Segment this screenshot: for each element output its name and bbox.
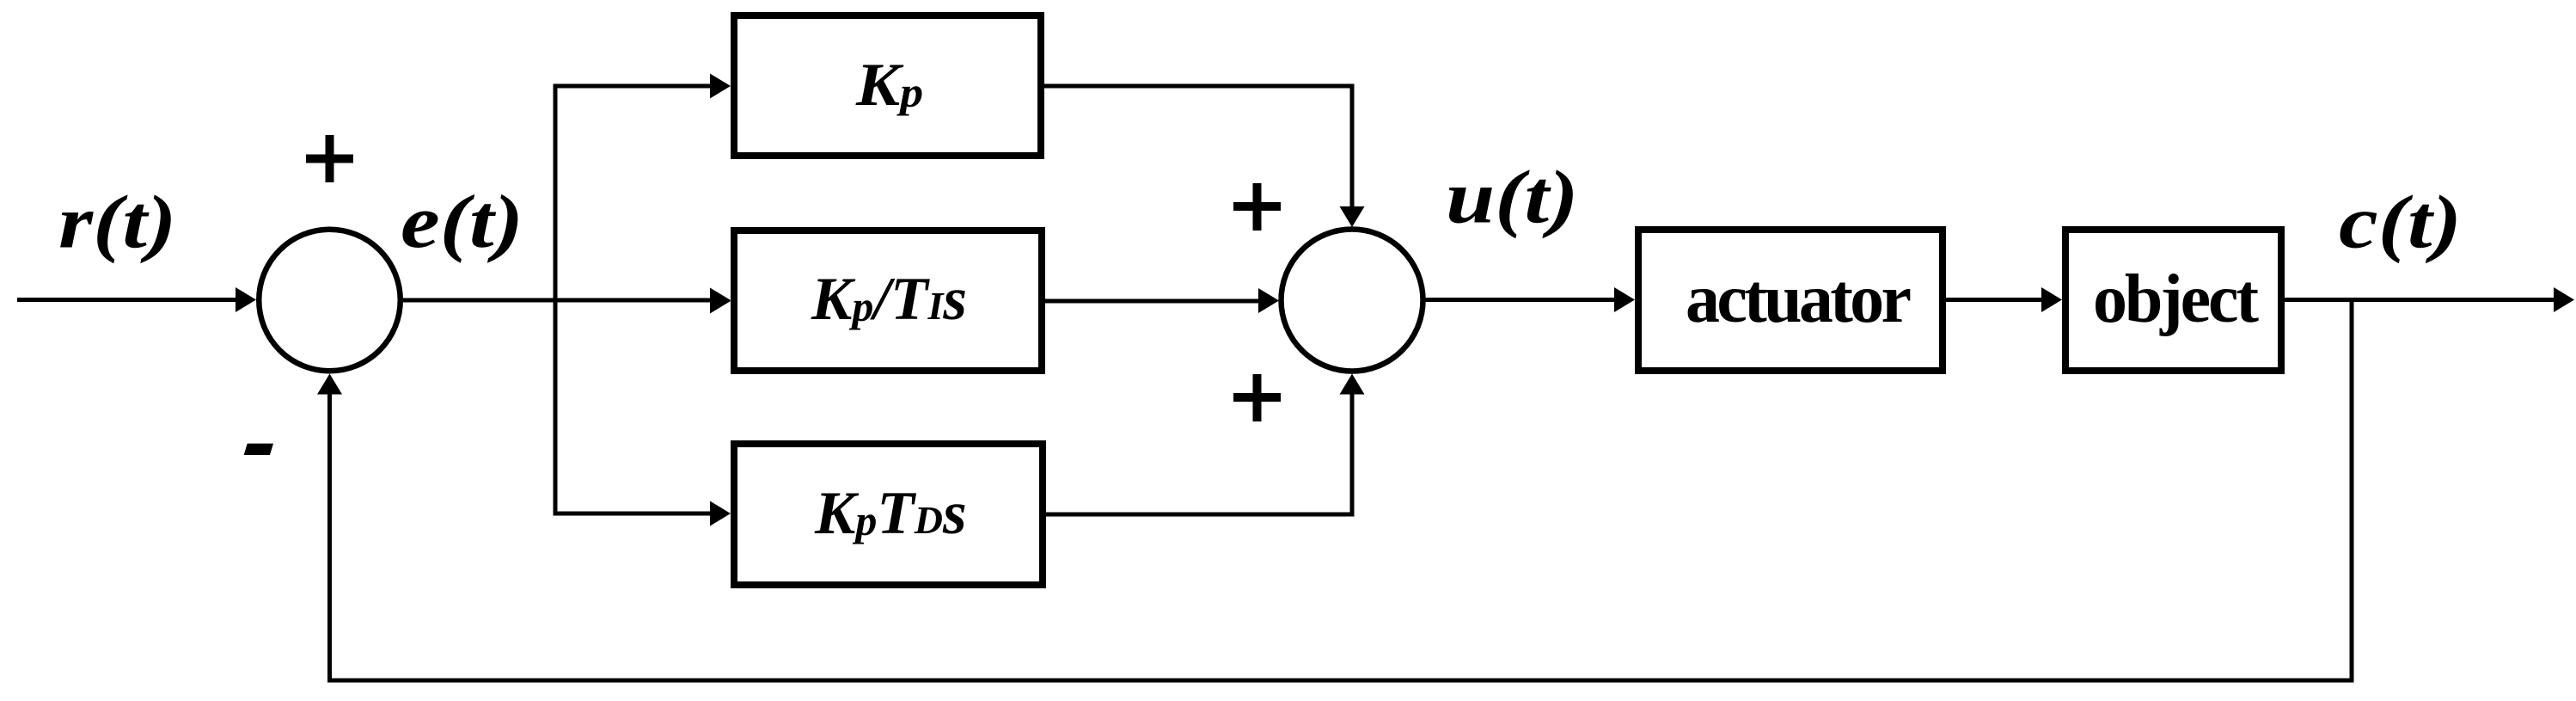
plus sign upper at summing junction S2: [1233, 183, 1281, 231]
wire branch to KpTDs block: [554, 501, 731, 526]
svg-text:object: object: [2093, 261, 2259, 337]
svg-text:actuator: actuator: [1686, 261, 1912, 337]
wire actuator to object: [1946, 287, 2062, 312]
block KpTDs: [734, 444, 1043, 585]
wire output c(t): [2285, 287, 2574, 312]
node label u(t): [1446, 155, 1578, 238]
svg-text:c(t): c(t): [2339, 180, 2462, 263]
wire branch to Kp block: [554, 74, 731, 99]
block actuator: [1638, 230, 1943, 371]
summing junction S2: [1282, 230, 1423, 372]
wire KpTDs output to summing junction S2: [1046, 374, 1365, 517]
node label r(t): [58, 180, 176, 263]
minus sign at summing junction S1: [244, 444, 273, 455]
wire KpTIs output to summing junction S2: [1045, 288, 1279, 313]
wire u(t) from S2 to actuator: [1426, 287, 1636, 312]
svg-text:Kp/TIs: Kp/TIs: [811, 266, 967, 333]
wire e(t) from S1 to middle block: [403, 288, 731, 313]
wire Kp output to summing junction S2: [1044, 84, 1365, 228]
wire branch vertical at node e(t): [554, 86, 558, 513]
block object: [2065, 230, 2281, 371]
svg-text:u(t): u(t): [1446, 155, 1578, 238]
svg-text:r(t): r(t): [58, 180, 176, 263]
svg-text:KpTDs: KpTDs: [814, 480, 967, 547]
block Kp: [734, 15, 1041, 156]
summing junction S1: [259, 230, 401, 372]
wire branch to KpTIs block: [710, 289, 731, 314]
node label c(t): [2339, 180, 2462, 263]
wire feedback from node c(t) to S1: [317, 300, 2354, 683]
svg-text:e(t): e(t): [401, 180, 523, 263]
node label e(t): [401, 180, 523, 263]
wire input r(t): [17, 287, 256, 312]
plus sign lower at summing junction S2: [1233, 374, 1281, 421]
block Kp/TIs: [734, 231, 1042, 371]
plus sign at summing junction S1: [306, 135, 353, 182]
